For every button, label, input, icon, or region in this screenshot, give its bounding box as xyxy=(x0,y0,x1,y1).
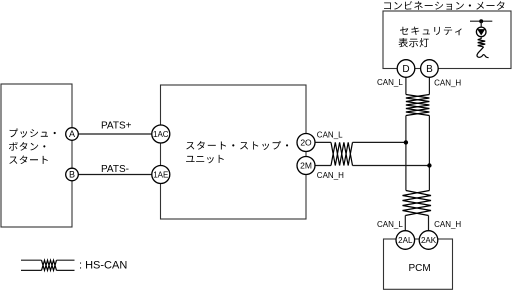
svg-text:CAN_L: CAN_L xyxy=(377,78,403,87)
wire LED top xyxy=(470,20,492,22)
label security indicator line1 (JP) xyxy=(400,27,462,36)
label start-stop-unit line2 (JP) xyxy=(186,155,224,163)
wire PATS- (B to 1AE) xyxy=(72,174,161,176)
legend twisted pair line a xyxy=(21,259,42,261)
legend line a right xyxy=(57,259,75,261)
box: combination meter xyxy=(383,11,511,69)
label start-stop-unit line1 (JP) xyxy=(186,141,288,150)
svg-text:CAN_L: CAN_L xyxy=(377,220,403,229)
label combination meter (JP) xyxy=(384,1,504,10)
twisted pair symbol (bus top) wire a xyxy=(406,95,430,116)
svg-text:CAN_H: CAN_H xyxy=(434,78,461,87)
svg-text:PATS+: PATS+ xyxy=(101,121,132,132)
legend twisted pair line b xyxy=(21,269,42,271)
pin D xyxy=(397,60,415,78)
pin 2M xyxy=(297,157,315,175)
twisted pair symbol (bus bottom) wire a xyxy=(403,191,432,216)
wire bus CAN_L vertical (D down) xyxy=(405,69,407,95)
pin B xyxy=(66,168,79,181)
wire CAN_H (2M to bus) xyxy=(306,165,331,167)
svg-text:2AL: 2AL xyxy=(398,236,413,245)
wire CAN_L after twist xyxy=(353,141,406,143)
pin 1AE xyxy=(152,166,170,184)
label push-button-start line3 (JP) xyxy=(9,156,48,165)
wire bus CAN_H mid xyxy=(428,116,430,191)
svg-text:PATS-: PATS- xyxy=(101,164,129,175)
svg-text:CAN_L: CAN_L xyxy=(317,131,343,140)
wire CAN_H after twist xyxy=(353,165,430,167)
svg-text:2AK: 2AK xyxy=(421,236,437,245)
box: PCM xyxy=(384,239,453,289)
pin 2AL xyxy=(396,231,415,250)
legend twist wire a xyxy=(42,260,57,270)
wire LED drop xyxy=(480,21,482,27)
label push-button-start line2 (JP) xyxy=(9,142,46,151)
legend twist wire b xyxy=(42,260,57,270)
svg-text:A: A xyxy=(69,129,75,139)
resistor zigzag xyxy=(478,39,486,47)
wire to 2AL xyxy=(404,216,406,241)
svg-text:2O: 2O xyxy=(300,137,312,147)
svg-text:B: B xyxy=(426,64,433,75)
twisted pair symbol (horizontal) wire a xyxy=(331,142,353,165)
wire bus CAN_L mid xyxy=(405,116,407,191)
junction LED top xyxy=(479,19,483,23)
wire bus CAN_H vertical (B down) xyxy=(428,69,430,95)
twisted pair symbol (bus top) wire b xyxy=(406,95,430,116)
svg-text:2M: 2M xyxy=(300,160,312,170)
junction CAN_H xyxy=(427,163,431,167)
box: start stop unit xyxy=(161,85,307,219)
svg-text:PCM: PCM xyxy=(408,263,430,274)
svg-text:B: B xyxy=(69,170,75,180)
wire to 2AK xyxy=(428,216,430,241)
svg-text:CAN_H: CAN_H xyxy=(434,220,461,229)
junction CAN_L xyxy=(404,140,408,144)
pin 2O xyxy=(297,134,315,152)
box: push button start unit xyxy=(1,84,72,227)
wire below LED xyxy=(480,37,482,39)
twisted pair symbol (horizontal) wire b xyxy=(331,142,353,165)
pin 2AK xyxy=(419,231,438,250)
svg-text:1AC: 1AC xyxy=(153,130,169,139)
pin A xyxy=(66,128,79,141)
svg-text:1AE: 1AE xyxy=(153,170,168,179)
pin 1AC xyxy=(152,125,170,143)
LED security indicator lamp xyxy=(476,27,486,37)
label security indicator line2 (JP) xyxy=(399,38,429,47)
svg-text:CAN_H: CAN_H xyxy=(317,171,344,180)
twisted pair symbol (bus bottom) wire b xyxy=(403,191,432,216)
svg-text:: HS-CAN: : HS-CAN xyxy=(79,260,127,272)
wire CAN_L (2O to bus) xyxy=(306,141,331,143)
wire PATS+ (A to 1AC) xyxy=(72,133,161,135)
pin B (meter) xyxy=(421,60,439,78)
svg-text:D: D xyxy=(402,64,409,75)
continuation hook xyxy=(477,47,489,58)
legend line b right xyxy=(57,269,75,271)
label push-button-start line1 (JP) xyxy=(10,129,56,138)
